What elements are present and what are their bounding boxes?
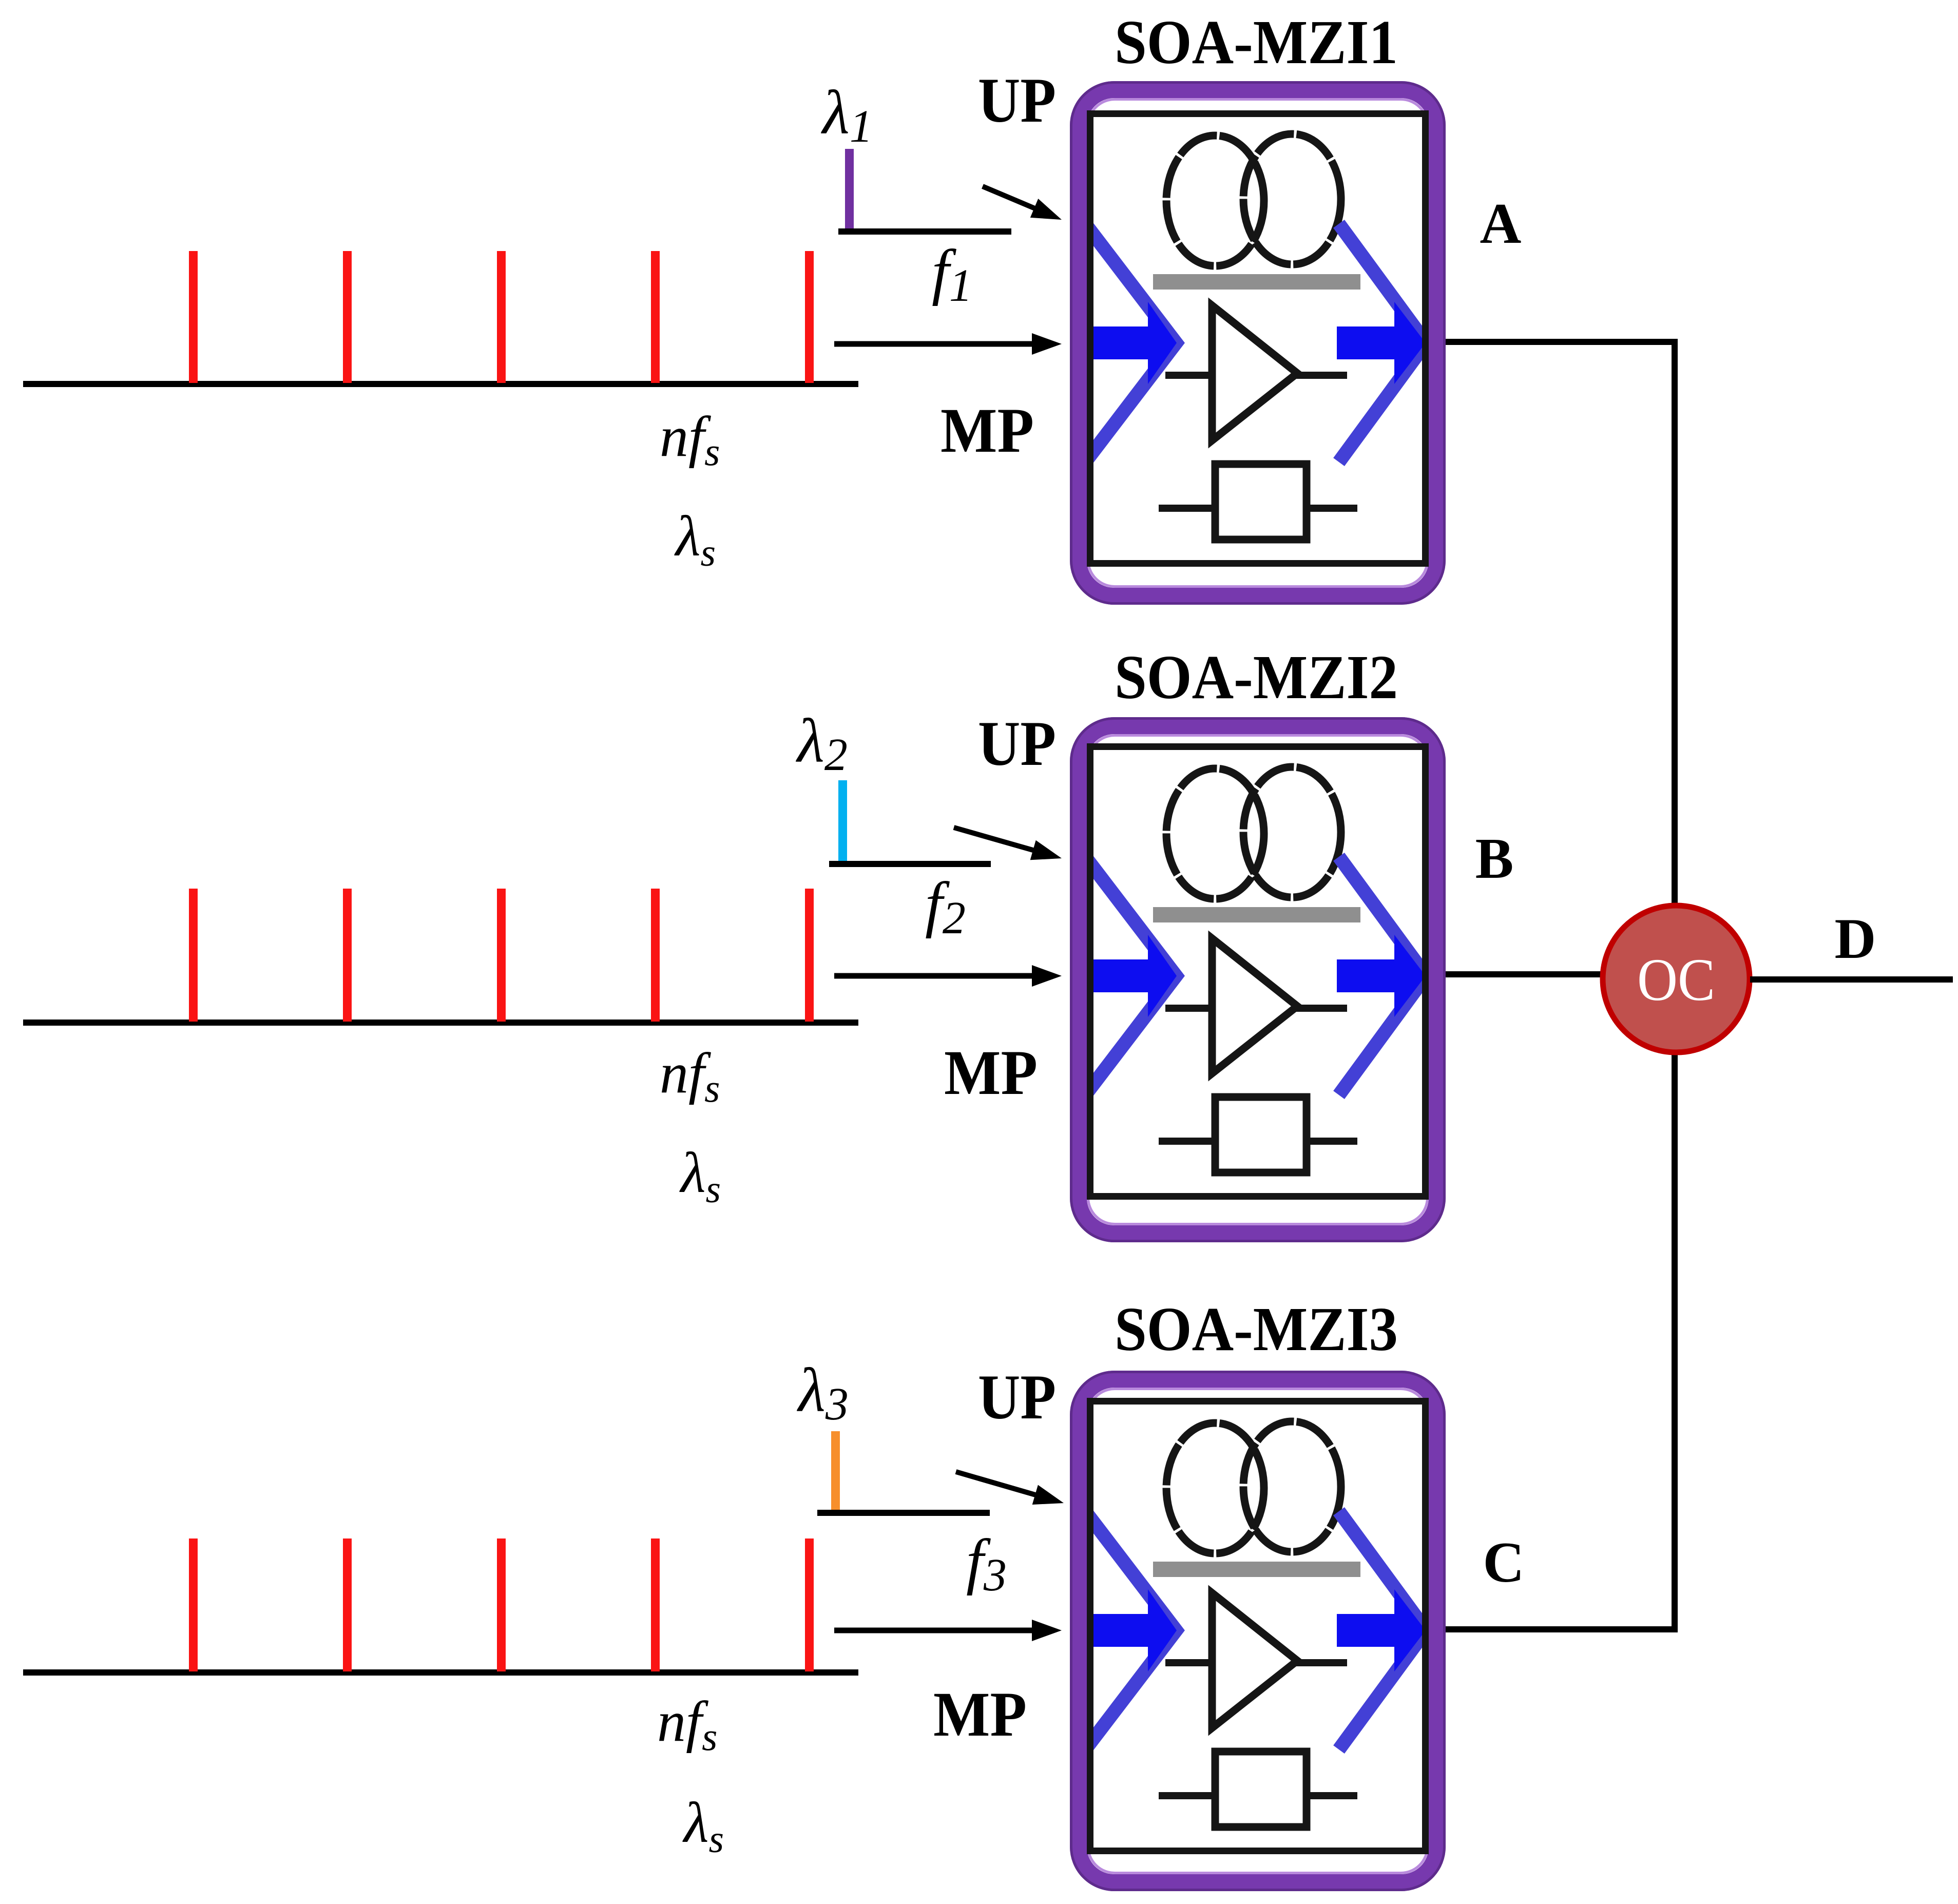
row3 comb line 1 (189, 1538, 198, 1671)
row1 lambda1 impulse (845, 149, 854, 232)
row3 comb line 2 (343, 1538, 352, 1671)
svg-text:f1: f1 (932, 237, 972, 311)
svg-text:SOA-MZI2: SOA-MZI2 (1115, 643, 1398, 712)
svg-text:λ3: λ3 (797, 1356, 849, 1430)
row2 comb spectrum baseline (wavelength axis) (23, 1020, 858, 1026)
SOA-MZI2 fiber coupler loop left (1166, 768, 1264, 899)
optical coupler OC (1603, 906, 1750, 1052)
row3 lambda3 impulse (831, 1431, 840, 1513)
svg-text:C: C (1483, 1531, 1525, 1594)
svg-text:UP: UP (978, 65, 1056, 136)
wire A: SOA-MZI1 output to bus (1446, 339, 1678, 345)
wire B: SOA-MZI2 output to OC (1446, 971, 1602, 977)
SOA-MZI3 output chevron wing (1339, 1511, 1426, 1749)
SOA-MZI3 input fat arrow (1087, 1589, 1177, 1671)
row2 f2 baseline (829, 861, 991, 867)
wire D: OC output (1750, 976, 1953, 983)
SOA-MZI2 module frame (1071, 719, 1445, 1241)
svg-text:UP: UP (978, 708, 1056, 779)
row3 comb line 5 (805, 1538, 814, 1671)
svg-text:λ2: λ2 (796, 706, 848, 780)
row1 comb line 1 (189, 251, 198, 383)
SOA-MZI2 phase shifter square (1215, 1097, 1307, 1172)
row2 comb line 3 (497, 889, 506, 1022)
row2 UP input arrow (954, 828, 1062, 860)
row1 comb line 2 (343, 251, 352, 383)
svg-text:λs: λs (679, 1141, 721, 1211)
SOA-MZI2 SOA amplifier triangle (1212, 938, 1297, 1073)
SOA-MZI1 output chevron wing (1339, 224, 1426, 462)
row1 comb spectrum baseline (wavelength axis) (23, 381, 858, 387)
svg-text:A: A (1480, 192, 1522, 256)
row1 comb line 4 (651, 251, 660, 383)
row3 comb line 3 (497, 1538, 506, 1671)
svg-text:f2: f2 (925, 870, 966, 944)
SOA-MZI3 SOA amplifier triangle (1212, 1593, 1297, 1728)
SOA-MZI3 coupler base bar (1153, 1562, 1360, 1577)
SOA-MZI2 inner schematic image border (1090, 747, 1426, 1197)
SOA-MZI1 coupler base bar (1153, 274, 1360, 290)
row2 comb line 1 (189, 889, 198, 1022)
svg-text:MP: MP (940, 395, 1034, 466)
svg-text:D: D (1835, 907, 1876, 971)
row1 f1 baseline (838, 228, 1011, 235)
SOA-MZI1 module frame (1071, 83, 1445, 604)
vertical bus wire into OC (1672, 339, 1678, 1632)
SOA-MZI1 inner schematic image border (1090, 114, 1426, 564)
svg-text:f3: f3 (966, 1527, 1007, 1601)
svg-text:λ1: λ1 (821, 78, 873, 152)
SOA-MZI3 input chevron wing (1085, 1511, 1176, 1749)
SOA-MZI3 SOA bias line upper (1165, 1659, 1347, 1666)
row3 UP input arrow (956, 1472, 1064, 1505)
SOA-MZI1 input fat arrow (1087, 302, 1177, 384)
SOA-MZI1 output fat arrow (1337, 302, 1426, 384)
SOA-MZI3 module frame (1071, 1372, 1445, 1890)
svg-text:λs: λs (682, 1791, 724, 1861)
SOA-MZI2 output fat arrow (1337, 935, 1426, 1017)
SOA-MZI1 fiber coupler loop right (1243, 134, 1341, 264)
svg-text:λs: λs (674, 505, 716, 574)
wire C: SOA-MZI3 output to bus (1446, 1626, 1678, 1632)
svg-text:OC: OC (1637, 946, 1715, 1013)
svg-text:nfs: nfs (660, 1042, 720, 1110)
row1 UP input arrow (983, 186, 1062, 220)
svg-text:SOA-MZI1: SOA-MZI1 (1115, 8, 1398, 77)
SOA-MZI3 inner schematic image border (1090, 1401, 1426, 1851)
row3 comb spectrum baseline (wavelength axis) (23, 1669, 858, 1676)
svg-text:MP: MP (944, 1037, 1038, 1108)
svg-text:nfs: nfs (657, 1690, 717, 1759)
SOA-MZI1 phase shifter line (1159, 505, 1357, 512)
row2 comb line 4 (651, 889, 660, 1022)
row1 comb line 3 (497, 251, 506, 383)
SOA-MZI2 fiber coupler loop right (1243, 767, 1341, 897)
SOA-MZI2 input chevron wing (1085, 857, 1176, 1095)
row2 comb line 5 (805, 889, 814, 1022)
row1 MP input arrow (834, 333, 1062, 355)
SOA-MZI3 fiber coupler loop left (1166, 1423, 1264, 1553)
SOA-MZI3 fiber coupler loop right (1243, 1421, 1341, 1552)
SOA-MZI1 input chevron wing (1085, 224, 1176, 462)
SOA-MZI2 coupler base bar (1153, 907, 1360, 922)
row2 MP input arrow (834, 965, 1062, 987)
row3 f3 baseline (817, 1510, 990, 1516)
SOA-MZI3 phase shifter square (1215, 1752, 1307, 1827)
SOA-MZI1 phase shifter square (1215, 464, 1307, 540)
SOA-MZI2 input fat arrow (1087, 935, 1177, 1017)
row1 comb line 5 (805, 251, 814, 383)
row2 comb line 2 (343, 889, 352, 1022)
SOA-MZI2 output chevron wing (1339, 857, 1426, 1095)
svg-text:nfs: nfs (660, 405, 720, 474)
SOA-MZI2 SOA bias line upper (1165, 1005, 1347, 1012)
SOA-MZI1 SOA bias line upper (1165, 372, 1347, 379)
svg-text:B: B (1475, 827, 1514, 891)
SOA-MZI2 phase shifter line (1159, 1138, 1357, 1145)
svg-text:MP: MP (933, 1679, 1027, 1749)
svg-text:SOA-MZI3: SOA-MZI3 (1115, 1295, 1398, 1364)
SOA-MZI1 SOA amplifier triangle (1212, 305, 1297, 440)
row2 lambda2 impulse (838, 780, 847, 864)
SOA-MZI1 fiber coupler loop left (1166, 136, 1264, 266)
row3 MP input arrow (834, 1620, 1062, 1641)
SOA-MZI3 phase shifter line (1159, 1792, 1357, 1799)
row3 comb line 4 (651, 1538, 660, 1671)
SOA-MZI3 output fat arrow (1337, 1589, 1426, 1671)
svg-text:UP: UP (978, 1362, 1056, 1432)
